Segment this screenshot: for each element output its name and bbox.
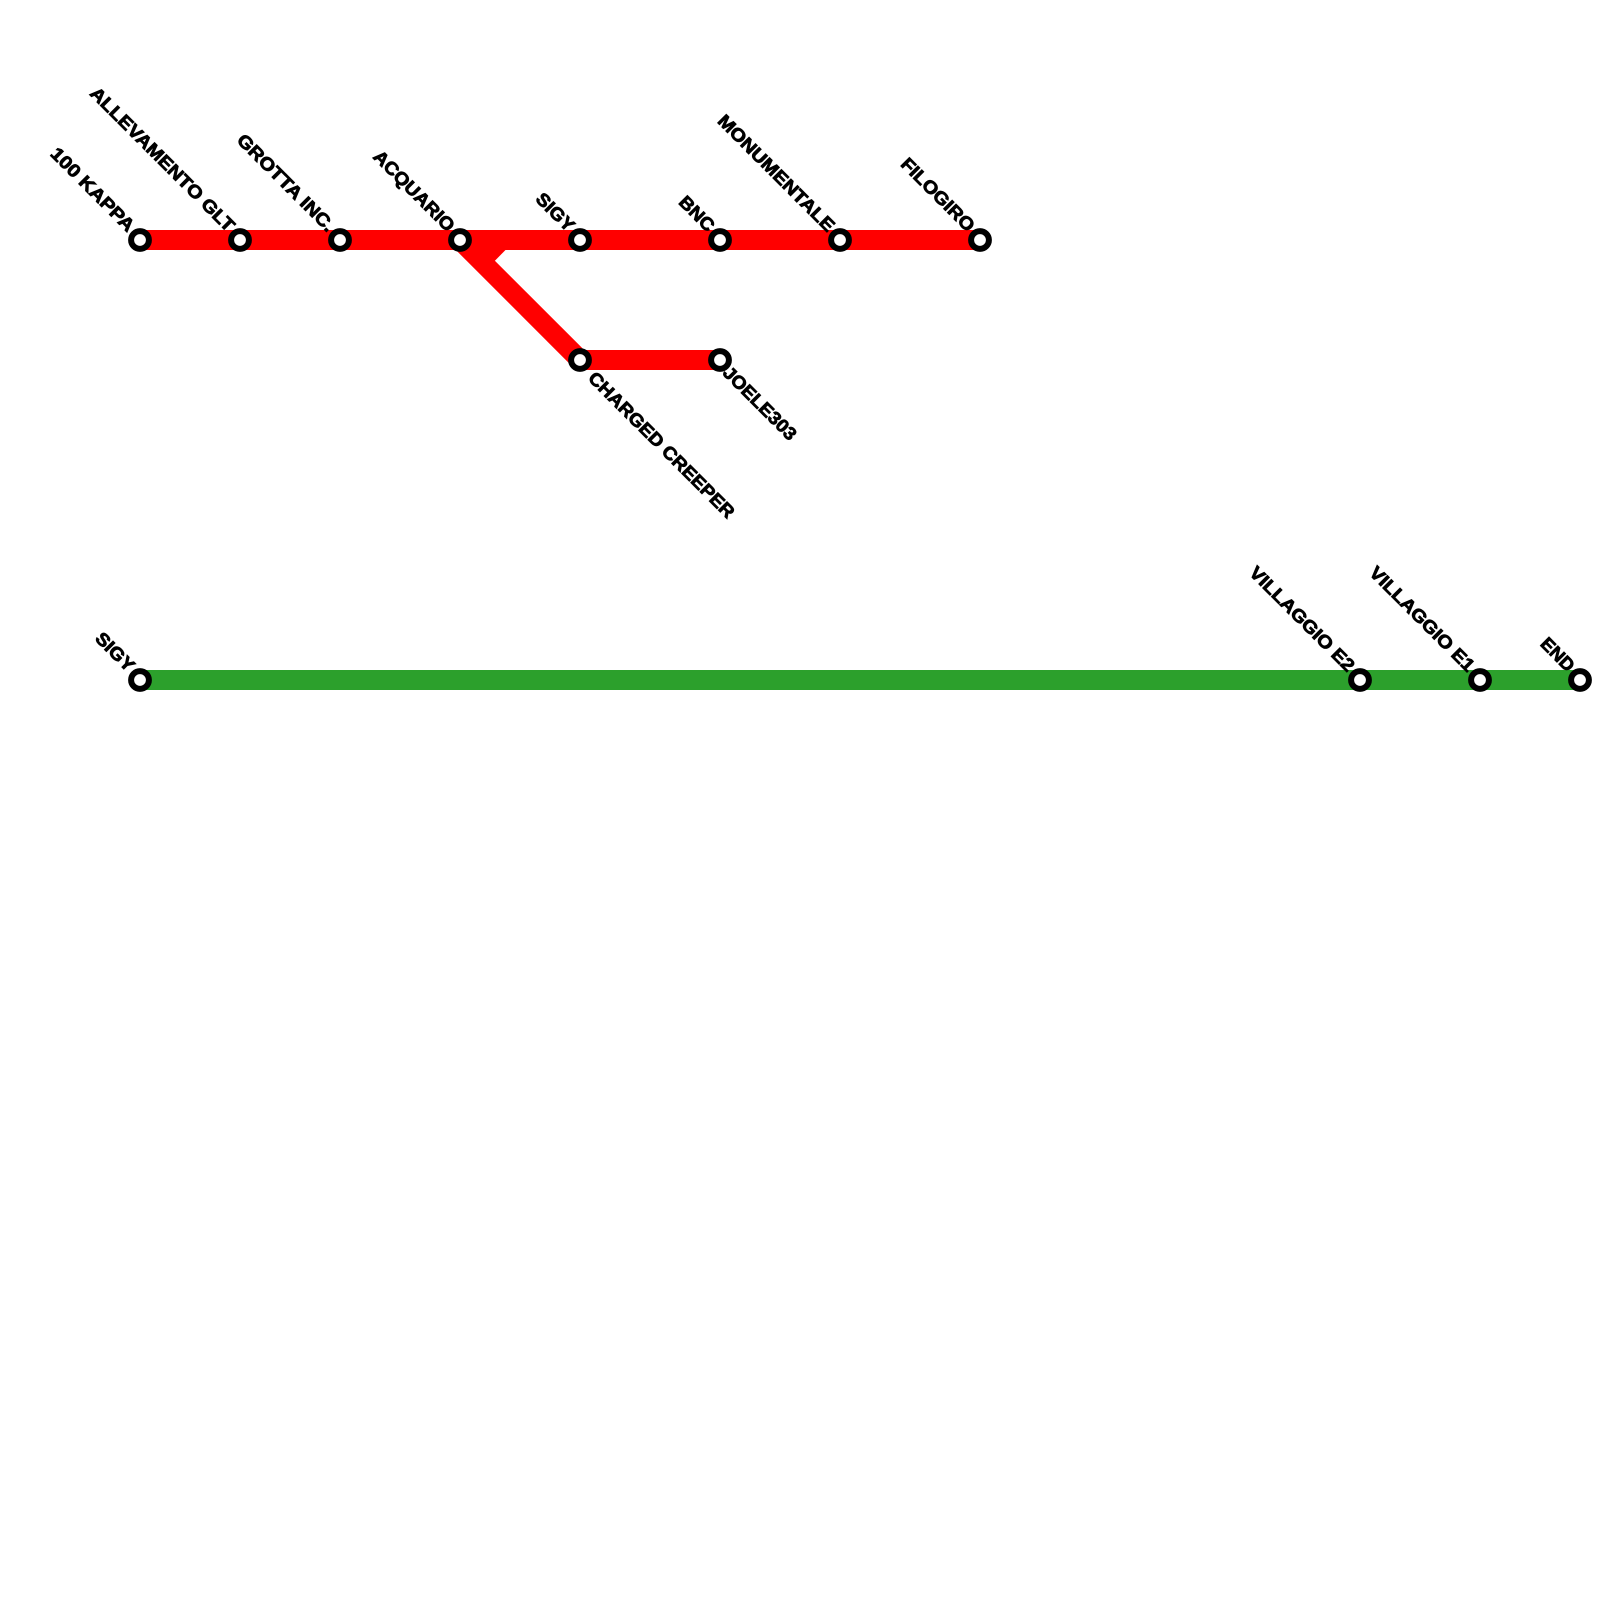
svg-text:VILLAGGIO E2: VILLAGGIO E2 — [1245, 562, 1358, 675]
station VILLAGGIO E1 — [1471, 671, 1489, 689]
station SIGY red — [571, 231, 589, 249]
station CHARGED CREEPER — [571, 351, 589, 369]
station JOELE303 — [711, 351, 729, 369]
station SIGY green — [131, 671, 149, 689]
svg-text:SIGY: SIGY — [91, 628, 138, 675]
station FILOGIRO — [971, 231, 989, 249]
wire red branch horizontal CHARGED CREEPER to JOELE303 — [580, 350, 720, 370]
svg-text:100 KAPPA: 100 KAPPA — [47, 143, 139, 235]
station BNC — [711, 231, 729, 249]
svg-text:END: END — [1537, 633, 1579, 675]
svg-text:CHARGED CREEPER: CHARGED CREEPER — [584, 368, 738, 522]
svg-text:BNC: BNC — [675, 192, 719, 236]
svg-text:ACQUARIO: ACQUARIO — [369, 146, 458, 235]
svg-text:MONUMENTALE: MONUMENTALE — [714, 111, 839, 236]
station GROTTA INC. — [331, 231, 349, 249]
svg-text:JOELE303: JOELE303 — [719, 362, 801, 444]
wire red branch diagonal ACQUARIO to CHARGED CREEPER — [460, 240, 580, 360]
svg-text:SIGY: SIGY — [532, 189, 579, 236]
wire red main line 100 KAPPA to FILOGIRO — [140, 230, 980, 250]
station 100 KAPPA — [131, 231, 149, 249]
station ACQUARIO — [451, 231, 469, 249]
svg-text:FILOGIRO: FILOGIRO — [897, 154, 979, 236]
station ALLEVAMENTO GLT — [231, 231, 249, 249]
svg-text:GROTTA INC.: GROTTA INC. — [233, 130, 339, 236]
svg-text:VILLAGGIO E1: VILLAGGIO E1 — [1365, 562, 1478, 675]
station VILLAGGIO E2 — [1351, 671, 1369, 689]
station MONUMENTALE — [831, 231, 849, 249]
station END — [1571, 671, 1589, 689]
wire green line SIGY to END — [140, 670, 1580, 690]
junction wedge at ACQUARIO — [472, 250, 506, 261]
